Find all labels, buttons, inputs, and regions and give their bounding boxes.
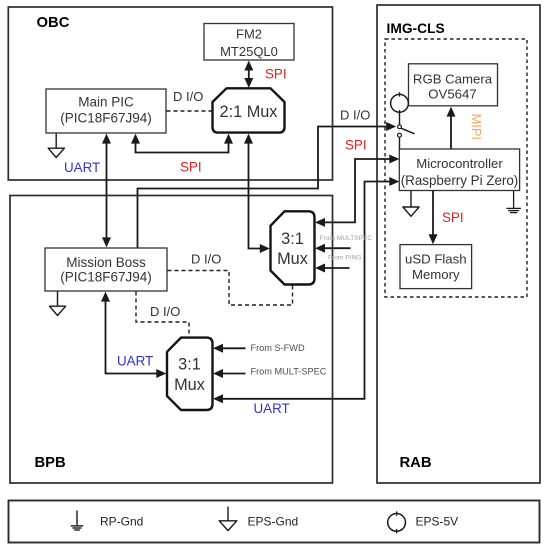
- svg-text:Mission Boss: Mission Boss: [66, 255, 146, 270]
- wire D I/O dashed Mission Boss to lower 3:1 Mux: [136, 292, 189, 337]
- uSD Flash Memory box: [400, 245, 472, 289]
- IMG-CLS / RAB subsystem box: [377, 5, 540, 483]
- svg-text:RAB: RAB: [400, 455, 432, 471]
- ground RP-Gnd below Microcontroller: [506, 191, 521, 213]
- 3:1 Mux lower: [167, 338, 213, 410]
- ground EPS-Gnd below Main PIC: [55, 134, 57, 148]
- wire SPI U-shape Main PIC to 2:1 Mux: [136, 141, 229, 153]
- wire UART Main PIC to Mission Boss (double arrow): [106, 140, 108, 241]
- svg-text:UART: UART: [64, 160, 100, 175]
- legend RP-Gnd symbol: [71, 511, 83, 531]
- ground EPS-Gnd below Microcontroller: [410, 191, 412, 207]
- RGB Camera box: [409, 64, 498, 106]
- svg-text:uSD Flash: uSD Flash: [405, 251, 467, 266]
- wire SPI Microcontroller to upper 3:1 Mux: [321, 159, 392, 222]
- 2:1 Mux U-mux: [213, 88, 285, 132]
- svg-text:Main PIC: Main PIC: [78, 95, 134, 110]
- svg-text:3:1: 3:1: [281, 230, 304, 248]
- OBC subsystem box: [8, 7, 332, 180]
- svg-text:(Raspberry Pi Zero): (Raspberry Pi Zero): [401, 173, 519, 188]
- wire SPI FM2 to 2:1 Mux (double arrow): [244, 61, 253, 89]
- switch (IMG power/data): [399, 112, 401, 124]
- svg-text:OBC: OBC: [37, 15, 70, 31]
- legend EPS-Gnd symbol: [227, 507, 229, 521]
- svg-text:D I/O: D I/O: [340, 108, 370, 123]
- svg-text:RGB Camera: RGB Camera: [413, 71, 493, 86]
- svg-text:D I/O: D I/O: [191, 252, 221, 267]
- svg-text:3:1: 3:1: [178, 356, 201, 374]
- wire 2:1 Mux to upper 3:1 Mux: [249, 140, 264, 249]
- Mission Boss box: [45, 248, 167, 291]
- svg-text:(PIC18F67J94): (PIC18F67J94): [60, 111, 152, 126]
- svg-text:RP-Gnd: RP-Gnd: [100, 514, 143, 528]
- svg-text:Memory: Memory: [412, 267, 460, 282]
- svg-text:EPS-5V: EPS-5V: [416, 514, 459, 528]
- Main PIC box: [46, 89, 166, 133]
- wire stub From MULTSPEC into upper mux: [322, 247, 351, 249]
- svg-text:Microcontroller: Microcontroller: [416, 156, 503, 171]
- 3:1 Mux upper: [271, 211, 315, 284]
- svg-text:MIPI: MIPI: [469, 114, 484, 140]
- svg-text:D I/O: D I/O: [150, 304, 180, 319]
- ground EPS-Gnd below Mission Boss: [57, 292, 59, 307]
- svg-text:OV5647: OV5647: [428, 86, 476, 101]
- wire stub From MULT-SPEC into lower mux: [220, 373, 246, 375]
- svg-text:From S-FWD: From S-FWD: [251, 343, 305, 353]
- svg-text:From MULT-SPEC: From MULT-SPEC: [251, 366, 327, 376]
- FM2 flash memory box: [204, 24, 294, 61]
- wire UART Mission Boss to lower 3:1 Mux: [106, 298, 161, 374]
- svg-text:SPI: SPI: [345, 137, 367, 152]
- wire MIPI Microcontroller to RGB Camera: [450, 112, 452, 149]
- wire stub From S-FWD into lower mux: [220, 347, 246, 349]
- svg-text:MT25QL0: MT25QL0: [220, 44, 278, 59]
- wire stub From PING into upper mux: [322, 267, 350, 269]
- svg-text:BPB: BPB: [35, 455, 67, 471]
- wire D I/O dashed Mission Boss to upper 3:1 Mux: [168, 271, 293, 306]
- BPB subsystem box: [10, 196, 333, 484]
- svg-text:From MULTSPEC: From MULTSPEC: [320, 235, 373, 242]
- svg-text:D I/O: D I/O: [173, 89, 203, 104]
- svg-text:SPI: SPI: [265, 67, 287, 82]
- wire D I/O Mission Boss to IMG switch: [138, 127, 390, 248]
- legend EPS-5V symbol: [388, 514, 406, 532]
- EPS-5V source circle (IMG): [391, 94, 409, 112]
- svg-text:From PING: From PING: [328, 255, 361, 262]
- svg-text:Mux: Mux: [277, 250, 308, 268]
- legend box: [9, 501, 540, 543]
- wire SPI Microcontroller to uSD: [432, 191, 434, 239]
- svg-text:UART: UART: [254, 401, 290, 416]
- wire D I/O Main PIC to 2:1 Mux (dashed): [167, 110, 212, 112]
- svg-text:FM2: FM2: [236, 27, 262, 42]
- svg-text:Mux: Mux: [174, 376, 205, 394]
- svg-text:SPI: SPI: [442, 210, 464, 225]
- svg-text:EPS-Gnd: EPS-Gnd: [248, 514, 299, 528]
- svg-text:SPI: SPI: [180, 160, 202, 175]
- svg-text:IMG-CLS: IMG-CLS: [387, 21, 445, 36]
- wire UART Microcontroller to lower 3:1 Mux: [219, 182, 392, 399]
- IMG-CLS dashed inner box: [385, 39, 527, 297]
- Microcontroller box: [399, 149, 519, 191]
- svg-text:(PIC18F67J94): (PIC18F67J94): [60, 269, 152, 284]
- svg-text:2:1 Mux: 2:1 Mux: [220, 103, 278, 121]
- svg-text:UART: UART: [117, 354, 153, 369]
